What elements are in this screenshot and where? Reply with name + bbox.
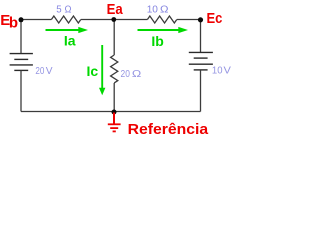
battery V1 plate short bottom [14, 69, 28, 71]
battery V1 plate long bottom [10, 64, 33, 66]
ground bar 1 [108, 123, 121, 125]
svg-text:V: V [46, 65, 53, 77]
svg-text:Ec: Ec [207, 10, 223, 27]
svg-text:V: V [224, 64, 231, 76]
wire left branch lower [20, 70, 22, 111]
svg-text:Ω: Ω [65, 4, 72, 16]
svg-text:Ib: Ib [151, 33, 163, 49]
current arrow Ia [46, 29, 80, 31]
wire middle branch lower [113, 83, 115, 112]
svg-text:10: 10 [147, 4, 158, 16]
battery V2 plate long top [189, 51, 213, 53]
node Ea dot [111, 17, 116, 22]
svg-text:20: 20 [35, 65, 44, 77]
wire bottom [21, 111, 201, 113]
ground bar 2 [110, 127, 118, 129]
ground stem [113, 113, 115, 124]
wire top Eb to R1 [21, 19, 51, 21]
battery V2 plate long bottom [189, 63, 213, 65]
wire R1 to Ea [81, 19, 114, 21]
resistor R2 10ohm [147, 16, 176, 23]
node reference dot [112, 110, 117, 115]
ground bar 3 [113, 130, 116, 132]
svg-text:10: 10 [212, 64, 223, 76]
battery V2 plate short [194, 57, 208, 59]
resistor R3 20ohm vertical [111, 55, 118, 83]
resistor R1 5ohm [51, 16, 80, 23]
wire middle branch upper [113, 20, 115, 56]
wire R2 to Ec [177, 19, 201, 21]
svg-text:Ω: Ω [160, 4, 169, 16]
wire Ea to R2 [114, 19, 148, 21]
svg-text:Ia: Ia [64, 32, 76, 48]
node Ec dot [198, 17, 203, 22]
battery V1 plate long top [10, 53, 33, 55]
svg-text:20: 20 [121, 68, 131, 80]
battery V2 plate short bottom [194, 69, 208, 71]
svg-text:5: 5 [56, 4, 62, 16]
svg-text:Ea: Ea [107, 1, 124, 18]
wire left branch upper [20, 20, 22, 54]
svg-text:Ic: Ic [87, 63, 99, 79]
current arrow Ic [101, 45, 103, 89]
wire right branch upper [200, 20, 202, 53]
svg-text:b: b [9, 14, 18, 31]
svg-text:Ω: Ω [132, 68, 142, 80]
current arrow Ib [138, 29, 180, 31]
svg-text:Referência: Referência [128, 121, 209, 138]
node Eb dot [19, 17, 24, 22]
battery V1 plate short [14, 58, 28, 60]
wire right branch lower [200, 70, 202, 112]
